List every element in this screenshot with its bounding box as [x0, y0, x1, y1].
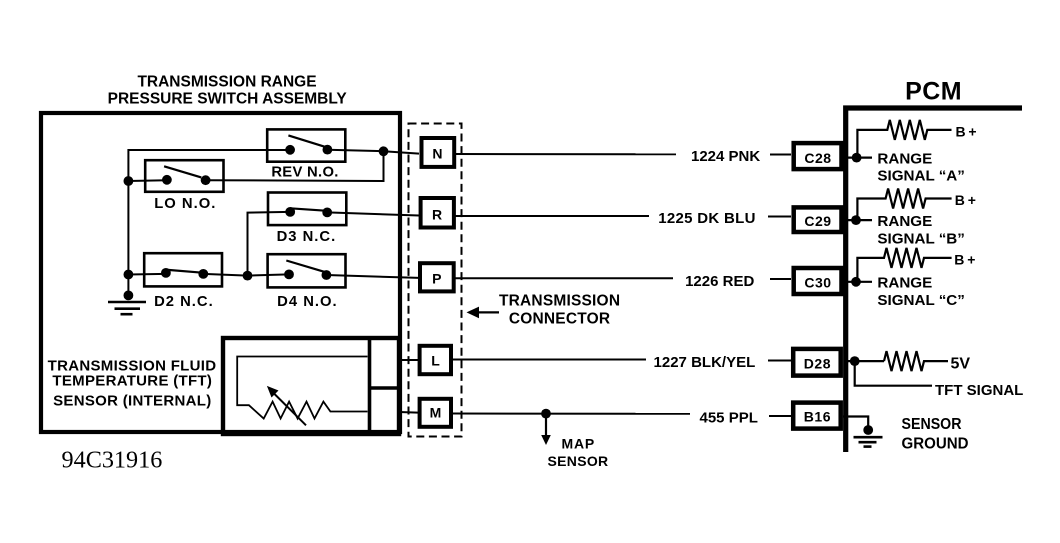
wire: D4 output to connector P: [326, 275, 419, 278]
switch D2 N.C.: [144, 253, 222, 310]
wire: MAP sensor drop arrow: [541, 414, 551, 445]
node: bus to LO junction: [123, 176, 133, 186]
resistor R3 pull-up: [857, 248, 951, 282]
wire: C29 to range signal B: [845, 219, 872, 221]
resistor R2 pull-up: [857, 189, 951, 221]
svg-text:SIGNAL “B”: SIGNAL “B”: [877, 231, 964, 248]
switch LO N.O.: [145, 160, 223, 212]
svg-text:RANGE: RANGE: [877, 275, 932, 292]
svg-text:N: N: [432, 146, 442, 162]
svg-text:SENSOR (INTERNAL): SENSOR (INTERNAL): [53, 392, 211, 409]
PCM block outline: [846, 108, 1022, 452]
svg-text:TEMPERATURE (TFT): TEMPERATURE (TFT): [52, 373, 212, 390]
svg-text:MAP: MAP: [562, 436, 596, 452]
svg-text:PRESSURE SWITCH ASSEMBLY: PRESSURE SWITCH ASSEMBLY: [108, 90, 348, 107]
label: sensor ground: [902, 416, 969, 453]
svg-text:B +: B +: [954, 251, 975, 267]
wire: node A to connector N: [384, 151, 420, 153]
svg-text:SENSOR: SENSOR: [548, 453, 609, 469]
svg-text:D28: D28: [804, 356, 831, 372]
wire 1225 DK BLU: [454, 215, 650, 217]
resistor R4: [884, 351, 948, 371]
node: bus to D2 junction: [123, 270, 133, 280]
svg-text:CONNECTOR: CONNECTOR: [509, 311, 610, 328]
svg-text:L: L: [431, 352, 440, 368]
wire: D28 to 5V resistor: [845, 360, 884, 362]
svg-text:TRANSMISSION: TRANSMISSION: [499, 292, 620, 309]
wire: LO output to node A: [206, 151, 384, 181]
wire: B16 to sensor ground: [843, 417, 868, 431]
TFT terminal divider bar: [370, 386, 400, 390]
node B: D2/D3/D4 junction: [243, 271, 253, 281]
svg-text:B +: B +: [956, 124, 977, 140]
thermistor RT1: [237, 357, 367, 419]
switch REV N.O.: [267, 129, 345, 180]
svg-text:P: P: [432, 271, 441, 287]
svg-text:1225 DK BLU: 1225 DK BLU: [658, 210, 756, 227]
svg-text:D3 N.C.: D3 N.C.: [277, 229, 337, 245]
terminal D28: [793, 349, 841, 376]
label: transmission fluid temperature sensor: [48, 358, 217, 410]
wire: bus to D2 input: [128, 273, 166, 276]
wire: C30 to range signal C: [845, 281, 872, 283]
connector pin P: [420, 263, 454, 291]
svg-text:B16: B16: [804, 409, 831, 425]
svg-text:94C31916: 94C31916: [62, 446, 163, 473]
node: sensor ground junction: [863, 425, 873, 435]
label: range signal A: [877, 150, 964, 184]
wire 1227 BLK/YEL: [453, 359, 647, 361]
svg-text:B +: B +: [955, 192, 976, 208]
svg-text:M: M: [430, 405, 442, 421]
node: D28 junction: [850, 356, 860, 366]
label: range signal C: [877, 275, 964, 309]
svg-text:455 PPL: 455 PPL: [700, 410, 758, 427]
label: transmission range pressure switch assembly title: [108, 74, 348, 108]
wire: REV output to node A: [327, 150, 383, 151]
svg-text:SENSOR: SENSOR: [902, 416, 962, 433]
svg-text:C30: C30: [804, 275, 831, 291]
wire: D2 output to node B: [203, 274, 247, 276]
svg-text:5V: 5V: [951, 355, 971, 372]
connector pin N: [422, 138, 455, 167]
terminal B16: [793, 403, 841, 429]
node: bus ground junction: [123, 291, 133, 301]
TFT terminal divider column: [368, 338, 372, 434]
wire: C28 to range signal A: [845, 157, 872, 159]
terminal C28: [794, 143, 842, 169]
svg-text:GROUND: GROUND: [902, 436, 969, 453]
wire 1226 RED: [454, 277, 674, 279]
wire: TFT signal branch: [855, 361, 932, 386]
svg-text:TRANSMISSION RANGE: TRANSMISSION RANGE: [137, 74, 316, 91]
node: MAP sensor tap: [541, 409, 551, 419]
ground G1: [108, 302, 146, 314]
wire: bus to LO input: [128, 179, 167, 182]
TFT sensor box: [223, 338, 399, 434]
svg-text:1226 RED: 1226 RED: [685, 273, 754, 290]
thermistor arrow: [267, 386, 306, 425]
svg-text:TFT SIGNAL: TFT SIGNAL: [935, 382, 1023, 399]
svg-text:RANGE: RANGE: [877, 213, 932, 230]
label: MAP sensor: [548, 436, 609, 470]
svg-text:PCM: PCM: [905, 78, 962, 106]
wire: TFT lower terminal to M: [399, 411, 418, 414]
svg-text:SIGNAL “A”: SIGNAL “A”: [877, 168, 964, 185]
svg-text:C29: C29: [804, 213, 831, 229]
svg-text:D4 N.O.: D4 N.O.: [277, 294, 337, 310]
svg-text:LO N.O.: LO N.O.: [154, 196, 216, 212]
node: C28 junction: [852, 153, 862, 163]
svg-text:R: R: [432, 206, 442, 222]
connector pin L: [420, 346, 451, 374]
svg-text:1224 PNK: 1224 PNK: [691, 148, 760, 165]
wire: D3 input drop to node B: [248, 212, 291, 276]
switch D3 N.C.: [268, 193, 346, 245]
connector pin M: [420, 399, 451, 427]
wire: TFT upper terminal to L: [399, 359, 418, 361]
connector pin R: [421, 198, 454, 228]
switch D4 N.O.: [268, 254, 346, 310]
connector dashed box: [409, 124, 462, 437]
svg-text:SIGNAL “C”: SIGNAL “C”: [877, 292, 964, 309]
wire: node B to D4 input: [248, 274, 290, 275]
terminal C30: [794, 268, 842, 294]
label: range signal B: [877, 213, 964, 248]
resistor R1 pull-up: [857, 120, 951, 158]
node: C30 junction: [851, 277, 861, 287]
node: C29 junction: [851, 215, 861, 225]
wire 1224 PNK: [454, 153, 677, 155]
svg-text:REV N.O.: REV N.O.: [271, 165, 338, 181]
terminal C29: [794, 207, 842, 232]
wire: D3 output to connector R: [327, 212, 419, 215]
svg-text:1227 BLK/YEL: 1227 BLK/YEL: [654, 354, 756, 371]
node A: REV/LO output junction: [379, 146, 389, 156]
assembly box: [41, 113, 400, 432]
svg-text:RANGE: RANGE: [877, 150, 932, 167]
arrow to connector: [467, 307, 500, 319]
ground G2: [854, 437, 883, 446]
svg-text:D2 N.C.: D2 N.C.: [154, 294, 214, 310]
label: transmission connector: [499, 292, 620, 327]
svg-text:C28: C28: [804, 150, 831, 166]
wire: left ground bus: [128, 150, 290, 295]
wire 455 PPL: [453, 413, 691, 415]
